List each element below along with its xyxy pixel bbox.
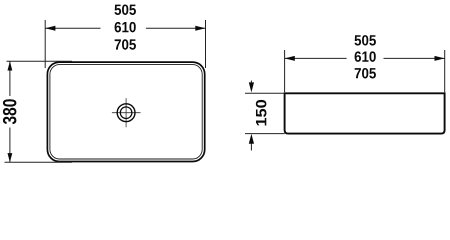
- height 150 lower stem: [250, 141, 252, 151]
- basin top view: outer rim: [47, 62, 204, 161]
- side-view width extension line right: [444, 50, 446, 92]
- height 150 arrow down: [249, 82, 254, 92]
- drain middle circle: [120, 107, 132, 119]
- side-view dimension arrow right: [435, 56, 445, 61]
- side-view label 610: [355, 51, 376, 61]
- top-view dimension arrow left: [45, 26, 55, 31]
- depth 380 dimension line lower segment: [9, 128, 11, 163]
- height 150 upper stem: [250, 81, 252, 87]
- depth 380 arrow up: [8, 61, 13, 70]
- depth 380 arrow down: [8, 153, 13, 162]
- depth 380 extension line top: [7, 60, 73, 62]
- height 150 extension line bottom: [245, 133, 285, 135]
- drain outer circle: [117, 104, 135, 122]
- side-view label 505: [354, 35, 375, 45]
- side-view width extension line left: [284, 50, 286, 92]
- top-view dimension line right segment: [146, 27, 206, 29]
- side-view label 705: [355, 68, 376, 78]
- side-view dimension line left segment: [285, 57, 347, 59]
- top-view width extension line right: [205, 20, 207, 68]
- depth 380 dimension line upper segment: [9, 61, 11, 96]
- depth 380 extension line bottom: [5, 161, 73, 163]
- top-view dimension line left segment: [45, 27, 100, 29]
- depth label 380: [3, 99, 16, 124]
- height label 150: [256, 100, 267, 126]
- drain crosshair horizontal: [112, 112, 141, 114]
- top-view dimension arrow right: [195, 26, 205, 31]
- top-view width extension line left: [44, 20, 46, 68]
- height 150 extension line top: [245, 92, 285, 94]
- drain crosshair vertical: [125, 98, 127, 127]
- top-view label 705: [115, 39, 136, 49]
- top-view label 505: [114, 4, 135, 14]
- side view body: [285, 93, 445, 133]
- side-view dimension arrow left: [285, 56, 295, 61]
- height 150 arrow up: [249, 134, 254, 144]
- top-view label 610: [115, 22, 136, 32]
- basin top view: inner rim: [50, 65, 202, 159]
- side-view dimension line right segment: [384, 57, 445, 59]
